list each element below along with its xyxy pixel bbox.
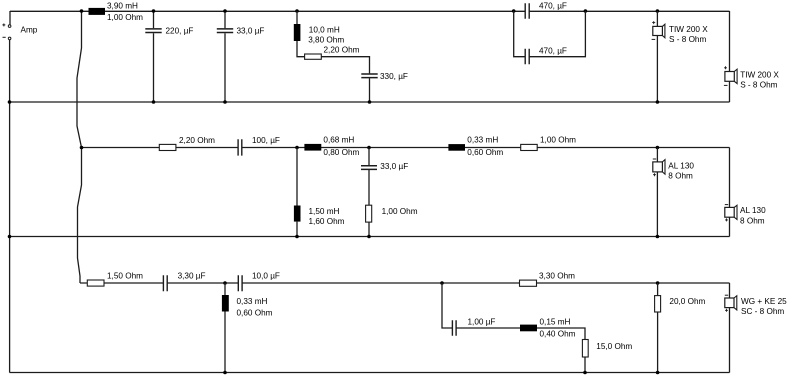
wire C10 to L7: [456, 327, 520, 329]
speaker LS4 AL 130: [725, 207, 734, 217]
capacitor C2 33,0uF branch: [217, 11, 233, 102]
svg-text:S - 8 Ohm: S - 8 Ohm: [669, 35, 706, 44]
wire right branch to LS2: [729, 11, 731, 102]
capacitor C6 100uF on mid rail: [238, 139, 242, 155]
svg-text:TIW 200 X: TIW 200 X: [740, 70, 779, 79]
svg-text:0,33 mH: 0,33 mH: [237, 297, 268, 306]
svg-text:3,80 Ohm: 3,80 Ohm: [308, 36, 344, 45]
node mid junction L3: [295, 146, 299, 150]
capacitor C8 3,30uF on section3 rail: [163, 275, 167, 291]
wire feed drop from top rail to mid rail (slight bends): [77, 11, 82, 148]
svg-text:0,33 mH: 0,33 mH: [467, 136, 498, 145]
resistor R7 3,30 Ohm on section3 rail: [520, 280, 537, 286]
speaker LS5 WG + KE 25: [725, 298, 734, 308]
svg-text:470, µF: 470, µF: [539, 47, 567, 56]
wire section2 bottom rail: [10, 236, 730, 238]
svg-text:330, µF: 330, µF: [380, 72, 408, 81]
svg-text:33,0 µF: 33,0 µF: [237, 26, 265, 35]
terminal + of Amp: [8, 25, 11, 28]
inductor L7 0,15mH: [520, 325, 537, 332]
wire section1 bottom rail: [10, 101, 730, 103]
wire left lead from plus terminal up to top rail: [9, 11, 11, 25]
svg-text:10,0 µF: 10,0 µF: [252, 272, 280, 281]
svg-text:S - 8 Ohm: S - 8 Ohm: [740, 81, 777, 90]
inductor L5 0,33mH on mid rail: [448, 144, 465, 151]
inductor L4 1,50mH branch: [296, 148, 298, 237]
svg-text:8 Ohm: 8 Ohm: [740, 216, 765, 225]
node mid rail feed: [80, 146, 84, 150]
resistor R4 1,00 Ohm on mid rail: [521, 144, 538, 150]
wire 470uF parallel loop: [514, 11, 586, 57]
svg-text:3,30 µF: 3,30 µF: [178, 272, 206, 281]
svg-text:1,50 Ohm: 1,50 Ohm: [107, 272, 143, 281]
node L2 branch junction: [295, 9, 299, 13]
svg-text:1,00 Ohm: 1,00 Ohm: [382, 207, 418, 216]
svg-text:15,0 Ohm: 15,0 Ohm: [596, 342, 632, 351]
wire section3 bottom rail: [10, 372, 730, 374]
svg-text:0,40 Ohm: 0,40 Ohm: [540, 329, 576, 338]
wire right branch to LS5: [729, 283, 731, 373]
svg-text:3,30 Ohm: 3,30 Ohm: [539, 272, 575, 281]
svg-text:0,80 Ohm: 0,80 Ohm: [323, 148, 359, 157]
node top rail feed junction: [80, 9, 84, 13]
svg-text:20,0 Ohm: 20,0 Ohm: [669, 297, 705, 306]
node 470 loop left: [512, 9, 516, 13]
svg-text:100, µF: 100, µF: [252, 136, 280, 145]
wire section3 top rail: [80, 282, 730, 284]
svg-text:0,60 Ohm: 0,60 Ohm: [237, 308, 273, 317]
inductor L3 0,68mH on mid rail: [304, 144, 321, 151]
svg-text:0,15 mH: 0,15 mH: [540, 318, 571, 327]
capacitor C9 10,0uF on section3 rail: [238, 275, 242, 291]
resistor R6 15,0 Ohm vertical: [582, 340, 588, 358]
wire L2 to R1: [297, 41, 305, 57]
svg-text:1,00 Ohm: 1,00 Ohm: [540, 136, 576, 145]
svg-text:220, µF: 220, µF: [166, 26, 194, 35]
capacitor C10 1,00uF: [452, 320, 456, 336]
svg-text:WG + KE 25: WG + KE 25: [741, 297, 787, 306]
svg-text:10,0 mH: 10,0 mH: [309, 25, 340, 34]
resistor R1 2,20 Ohm: [305, 54, 322, 59]
inductor L2 10,0mH vertical: [296, 11, 298, 24]
capacitor C4 470uF on top rail: [525, 3, 529, 18]
resistor R8 20,0 Ohm vertical: [657, 283, 659, 296]
svg-text:0,60 Ohm: 0,60 Ohm: [467, 148, 503, 157]
node left end of section2 bottom rail: [8, 235, 12, 239]
wire top rail: [10, 10, 730, 12]
svg-text:1,60 Ohm: 1,60 Ohm: [309, 217, 345, 226]
svg-text:TIW 200 X: TIW 200 X: [669, 25, 708, 34]
wire right branch to LS4: [729, 148, 731, 237]
wire R1 to C3: [321, 57, 369, 74]
svg-text:33,0 µF: 33,0 µF: [380, 162, 408, 171]
svg-text:8 Ohm: 8 Ohm: [668, 172, 693, 181]
capacitor C3 330uF: [361, 74, 377, 78]
svg-text:2,20 Ohm: 2,20 Ohm: [179, 136, 215, 145]
wire sub-branch down and to C10: [442, 283, 452, 328]
node left end of section1 bottom rail: [8, 100, 12, 104]
wire left return rail from minus terminal down to bottom: [9, 40, 11, 373]
resistor R5 1,50 Ohm section3 rail: [87, 280, 104, 286]
svg-text:1,50 mH: 1,50 mH: [309, 207, 340, 216]
wire section2 mid rail: [82, 147, 730, 149]
node mid speaker column: [656, 146, 660, 150]
svg-text:Amp: Amp: [21, 26, 38, 35]
node R8 junction: [656, 281, 660, 285]
wire mid speaker column: [656, 148, 658, 237]
inductor L1 3,90mH on top rail: [89, 8, 106, 15]
speaker LS1 TIW 200 X: [653, 26, 663, 35]
speaker LS2 TIW 200 X: [725, 72, 734, 82]
svg-text:1,00 Ohm: 1,00 Ohm: [107, 13, 143, 22]
terminal - of Amp: [8, 37, 11, 40]
capacitor C5 470uF lower: [525, 49, 529, 65]
svg-text:470, µF: 470, µF: [539, 1, 567, 10]
wire speaker column section1: [656, 11, 658, 102]
svg-text:0,68 mH: 0,68 mH: [323, 136, 354, 145]
resistor R2 2,20 Ohm on mid rail: [159, 144, 176, 150]
node 470 loop right: [584, 9, 588, 13]
svg-text:AL 130: AL 130: [740, 206, 766, 215]
capacitor C1 220uF branch: [145, 11, 161, 102]
svg-text:2,20 Ohm: 2,20 Ohm: [324, 46, 360, 55]
svg-text:3,90 mH: 3,90 mH: [107, 1, 138, 10]
capacitor C7 33,0uF branch mid: [368, 148, 370, 206]
node section3 L6 junction: [223, 281, 227, 285]
svg-text:1,00 µF: 1,00 µF: [468, 318, 496, 327]
node section3 sub-branch junction: [440, 281, 444, 285]
wire L7 to R6: [537, 328, 585, 340]
wire feed drop from mid rail to bottom section rail: [78, 148, 82, 284]
svg-text:SC - 8 Ohm: SC - 8 Ohm: [741, 307, 784, 316]
resistor R3 1,00 Ohm vertical: [366, 205, 372, 222]
node speaker column top: [656, 9, 660, 13]
node mid junction C7: [367, 146, 371, 150]
inductor L6 0,33mH branch: [224, 283, 226, 295]
svg-text:AL 130: AL 130: [668, 162, 694, 171]
speaker LS3 AL 130: [653, 162, 663, 172]
